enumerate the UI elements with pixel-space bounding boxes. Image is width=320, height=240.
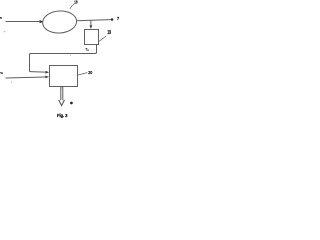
outlet double line (left) [60,87,62,101]
arrowhead into box 20 (lower) [45,76,49,79]
svg-text:18: 18 [74,0,78,6]
caption Fig. 3 [57,113,68,118]
arrowhead into box 20 (upper) [45,71,49,74]
svg-text:Ts: Ts [85,47,89,52]
label Ts (below box 19) [85,47,89,52]
box 20 (heater block) [50,66,78,87]
label 20 [88,70,92,76]
svg-text:Fig. 3: Fig. 3 [57,113,68,118]
wire: branch down from output line to box 19 [90,20,92,26]
leader line for label 19 [99,36,106,41]
right terminal label 7 [117,16,120,21]
arrowhead into box 19 [90,25,93,29]
outlet double line (right) [62,87,64,101]
small junction dot under box 20 outlet [61,87,62,88]
faint dot under wire [70,55,71,56]
input terminal mark 2 (left edge) [0,72,3,74]
steam dot beside outlet arrow [70,102,73,105]
label 18 [74,0,78,6]
faint smudge left middle [4,31,6,33]
junction dot at right terminal [111,18,114,21]
label 19 [107,30,111,36]
component 18: ellipse (blower) [42,10,77,34]
box 19 (sensor block) [85,30,99,45]
input terminal mark (left edge, cut off) [0,17,2,19]
faint speck lower-left [11,81,12,82]
leader line for label 20 [78,73,87,75]
leader line for label 18 [70,4,74,9]
wire: box 19 bottom, down-left-down into box 20 left side [30,45,97,73]
wire: second input line into box 20 [6,77,46,78]
svg-text:20: 20 [88,70,92,76]
wire: ellipse 18 to right output terminal [77,20,111,21]
arrowhead into ellipse 18 [40,20,44,23]
wire: input line into ellipse 18 [6,21,40,23]
svg-text:19: 19 [107,30,111,36]
hollow arrowhead (outlet, pointing down) [59,100,65,106]
